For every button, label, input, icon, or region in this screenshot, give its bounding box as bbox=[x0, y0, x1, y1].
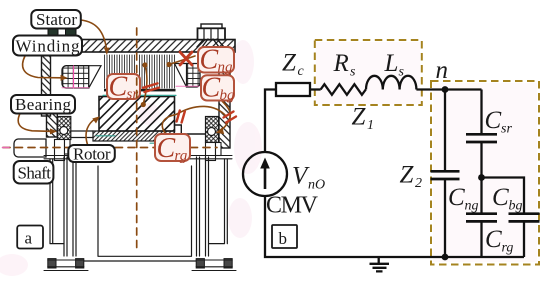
svg-text:C: C bbox=[485, 226, 502, 253]
svg-text:1: 1 bbox=[367, 118, 374, 133]
svg-text:Z: Z bbox=[400, 162, 415, 189]
svg-text:ng: ng bbox=[465, 199, 479, 214]
svg-text:Bearing: Bearing bbox=[15, 95, 72, 114]
svg-text:nO: nO bbox=[308, 178, 325, 193]
svg-text:s: s bbox=[350, 65, 356, 80]
svg-text:C: C bbox=[109, 72, 128, 103]
svg-text:L: L bbox=[384, 50, 399, 77]
svg-text:sr: sr bbox=[501, 122, 512, 137]
svg-text:C: C bbox=[157, 133, 176, 164]
svg-text:n: n bbox=[436, 57, 449, 84]
svg-text:Z: Z bbox=[282, 50, 297, 77]
svg-text:bg: bg bbox=[220, 88, 236, 104]
svg-text:Rotor: Rotor bbox=[73, 144, 111, 163]
svg-text:R: R bbox=[333, 50, 349, 77]
svg-text:2: 2 bbox=[415, 176, 422, 191]
svg-text:Stator: Stator bbox=[36, 10, 77, 29]
svg-text:rg: rg bbox=[502, 241, 514, 256]
svg-text:c: c bbox=[298, 64, 305, 79]
svg-text:C: C bbox=[202, 73, 221, 104]
svg-text:CMV: CMV bbox=[266, 193, 319, 219]
svg-text:a: a bbox=[25, 229, 33, 248]
svg-text:s: s bbox=[399, 65, 405, 80]
svg-text:C: C bbox=[448, 184, 465, 211]
svg-text:C: C bbox=[200, 45, 219, 76]
svg-text:Winding: Winding bbox=[16, 37, 81, 56]
svg-text:Shaft: Shaft bbox=[18, 164, 52, 183]
svg-text:Z: Z bbox=[352, 104, 367, 131]
svg-text:C: C bbox=[485, 107, 502, 134]
svg-text:b: b bbox=[279, 229, 288, 248]
svg-text:rg: rg bbox=[175, 148, 188, 164]
svg-text:bg: bg bbox=[509, 199, 523, 214]
svg-text:C: C bbox=[492, 184, 509, 211]
